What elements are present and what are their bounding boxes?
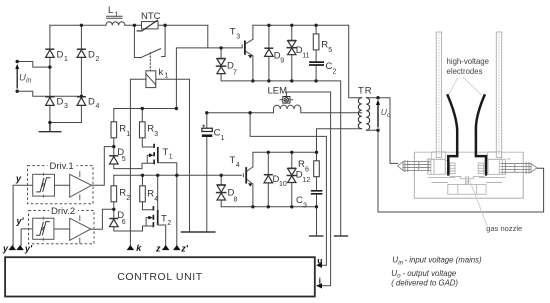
arrow i into control unit bbox=[316, 283, 322, 288]
MOSFET T2 bbox=[146, 206, 158, 227]
label Uo output bbox=[381, 107, 391, 119]
node R3 top bbox=[141, 107, 144, 110]
svg-text:1: 1 bbox=[221, 135, 225, 142]
node bridge leg A input bbox=[48, 65, 51, 68]
node D12 top bbox=[290, 151, 293, 154]
annotation Uin bbox=[392, 256, 482, 267]
wire bridge leg B bbox=[80, 25, 82, 122]
driver box Driv.1 dashed bbox=[28, 166, 94, 204]
label D7 bbox=[227, 61, 237, 77]
nozzle body bbox=[448, 185, 486, 195]
resistor R4 bbox=[140, 186, 146, 202]
diode D1 bbox=[45, 49, 54, 57]
wire primary top feed bbox=[349, 25, 362, 97]
wire driver2 internal bbox=[54, 228, 70, 230]
diode D10 bbox=[264, 175, 273, 183]
svg-text:D: D bbox=[88, 97, 95, 108]
label R3 bbox=[147, 124, 158, 139]
svg-text:2: 2 bbox=[126, 195, 130, 202]
label D10 bbox=[273, 174, 287, 188]
wire T4 collector and upper rail lower chopper bbox=[253, 152, 317, 167]
gas nozzle tip bbox=[466, 176, 468, 184]
MOSFET T1 bbox=[142, 144, 158, 165]
svg-text:in: in bbox=[26, 78, 32, 85]
svg-text:T: T bbox=[163, 147, 169, 158]
label D9 bbox=[274, 51, 285, 65]
arrow u into control unit bbox=[316, 263, 322, 268]
electrode right bbox=[476, 94, 486, 175]
wire R4 column to T2 bbox=[143, 175, 154, 210]
svg-text:R: R bbox=[298, 159, 305, 170]
node D5 top bbox=[112, 145, 115, 148]
resistor R5 bbox=[313, 34, 319, 50]
node D9 bottom bbox=[267, 79, 270, 82]
leader lines electrodes bbox=[449, 78, 482, 96]
svg-text:3: 3 bbox=[303, 203, 307, 210]
svg-text:- input voltage (mains): - input voltage (mains) bbox=[405, 256, 483, 265]
node Uin upper terminal bbox=[16, 60, 19, 63]
label D5 bbox=[117, 147, 126, 163]
svg-text:( delivered to GAD): ( delivered to GAD) bbox=[391, 279, 458, 288]
svg-text:D: D bbox=[88, 50, 95, 61]
wire driver1 output to D5 node bbox=[92, 147, 114, 186]
Uo arrow bbox=[376, 100, 380, 128]
svg-text:z: z bbox=[155, 244, 161, 254]
node bridge bottom bbox=[48, 121, 51, 124]
svg-text:D: D bbox=[57, 97, 64, 108]
svg-text:1: 1 bbox=[115, 12, 119, 19]
svg-text:Driv.1: Driv.1 bbox=[50, 161, 74, 172]
IGBT T3 bbox=[242, 39, 253, 58]
label D3 bbox=[57, 97, 69, 111]
label R1 bbox=[119, 124, 130, 139]
svg-text:4: 4 bbox=[96, 103, 100, 110]
capacitor C1 electrolytic bbox=[202, 124, 212, 137]
ground lower chopper bbox=[310, 235, 323, 237]
resistor R1 bbox=[111, 122, 117, 138]
wire T1 right lead down bbox=[159, 163, 177, 176]
wire NTC right node down to contact bbox=[162, 25, 166, 56]
resistor R2 bbox=[111, 186, 117, 202]
svg-text:LEM: LEM bbox=[268, 86, 288, 97]
svg-text:y': y' bbox=[16, 216, 25, 226]
node NTC right bbox=[163, 24, 166, 27]
svg-text:o: o bbox=[387, 112, 391, 119]
wire mid rail bbox=[114, 174, 242, 176]
wire R1 column bbox=[114, 109, 153, 169]
svg-text:electrodes: electrodes bbox=[447, 67, 483, 76]
svg-text:T: T bbox=[161, 214, 167, 225]
node C2 bottom bbox=[314, 79, 317, 82]
svg-text:T: T bbox=[230, 27, 236, 38]
wire C1 column bbox=[206, 113, 208, 232]
svg-text:1: 1 bbox=[64, 56, 68, 63]
svg-text:y: y bbox=[2, 244, 9, 254]
svg-text:1: 1 bbox=[165, 73, 169, 80]
LEM coil bbox=[274, 105, 301, 109]
label D4 bbox=[88, 97, 100, 111]
svg-text:TR: TR bbox=[358, 86, 373, 97]
svg-text:R: R bbox=[147, 189, 154, 200]
terminal k bbox=[127, 245, 135, 250]
node NTC left bbox=[133, 24, 136, 27]
label k1 bbox=[159, 67, 169, 80]
label D2 bbox=[88, 50, 100, 64]
svg-text:- output voltage: - output voltage bbox=[403, 269, 457, 278]
glass tube right bbox=[496, 32, 501, 157]
svg-text:12: 12 bbox=[302, 177, 310, 184]
wire Uin lower input bbox=[17, 91, 81, 96]
svg-text:z': z' bbox=[180, 244, 189, 254]
wire T2 right lead to z terminal bbox=[159, 225, 166, 246]
svg-text:i: i bbox=[319, 276, 321, 286]
label high-voltage electrodes bbox=[447, 57, 489, 76]
svg-text:11: 11 bbox=[302, 53, 309, 60]
wire Uin upper input bbox=[17, 62, 50, 68]
svg-text:2: 2 bbox=[96, 56, 100, 63]
svg-text:6: 6 bbox=[122, 219, 126, 226]
node R4 top bbox=[141, 174, 144, 177]
svg-text:NTC: NTC bbox=[141, 11, 161, 22]
leader line gas nozzle bbox=[469, 180, 487, 227]
ground C1 bbox=[199, 231, 215, 233]
label T2 bbox=[161, 214, 171, 228]
label D1 bbox=[57, 50, 69, 64]
wire y line bbox=[13, 185, 33, 245]
label R6 bbox=[298, 159, 309, 174]
wire T4 emitter down bbox=[252, 184, 254, 207]
svg-text:y: y bbox=[15, 174, 22, 184]
wire lower rail bbox=[221, 206, 316, 208]
diode D5 bbox=[109, 156, 118, 164]
svg-text:y': y' bbox=[24, 244, 33, 254]
svg-text:1: 1 bbox=[126, 131, 130, 138]
label T3 bbox=[230, 27, 240, 41]
right holder block bbox=[485, 152, 505, 174]
hysteresis block 2 bbox=[33, 217, 54, 241]
terminal y bbox=[9, 245, 17, 250]
wire bridge leg A bbox=[49, 25, 51, 122]
wire R6 C3 column bbox=[316, 152, 318, 236]
wire R2 column bbox=[114, 175, 154, 231]
wire T3 emitter down bbox=[252, 56, 254, 81]
amplifier triangle 1 bbox=[70, 171, 92, 200]
terminal y prime bbox=[16, 245, 24, 250]
label L1 bbox=[108, 5, 119, 19]
svg-text:gas nozzle: gas nozzle bbox=[486, 224, 522, 233]
wire R1 R3 supply line bbox=[114, 108, 177, 110]
svg-text:1: 1 bbox=[169, 154, 173, 161]
wire T3 collector to top rail bbox=[252, 25, 254, 39]
control unit box bbox=[5, 257, 315, 296]
svg-text:3: 3 bbox=[236, 34, 240, 41]
relay contact blade k1 bbox=[140, 49, 161, 58]
svg-text:8: 8 bbox=[234, 197, 238, 204]
diode D9 bbox=[264, 48, 273, 56]
node D11 top bbox=[290, 24, 293, 27]
node supply corner bbox=[175, 107, 178, 110]
wire driver2 output to D6 node bbox=[91, 209, 114, 229]
label Driv.2 bbox=[49, 206, 78, 217]
node top rail leg B bbox=[80, 24, 83, 27]
node D10 bottom bbox=[267, 205, 270, 208]
left bolt bbox=[398, 160, 431, 172]
wire LEM main line bbox=[207, 109, 362, 113]
wire k1 left lead to k terminal bbox=[130, 79, 146, 245]
wire D11 column bbox=[291, 25, 293, 81]
wire D10 column bbox=[267, 152, 269, 207]
terminal z prime bbox=[173, 245, 181, 250]
TVS diode D7 bbox=[216, 59, 227, 74]
wire z' line bbox=[176, 175, 178, 245]
ground bridge bbox=[39, 123, 60, 132]
svg-text:U: U bbox=[19, 73, 26, 84]
svg-text:R: R bbox=[119, 124, 126, 135]
node T1 source mid rail bbox=[175, 174, 178, 177]
svg-text:high-voltage: high-voltage bbox=[447, 57, 489, 66]
svg-text:2: 2 bbox=[167, 220, 171, 227]
apparatus top plate edges bbox=[414, 152, 523, 159]
node secondary top bbox=[376, 96, 379, 99]
svg-text:R: R bbox=[147, 124, 154, 135]
wire R5 C2 column bbox=[315, 25, 317, 81]
svg-text:4: 4 bbox=[236, 162, 240, 169]
node T3 emitter rail bbox=[251, 79, 254, 82]
right clamp hatch bbox=[478, 163, 483, 174]
svg-text:5: 5 bbox=[328, 47, 332, 54]
capacitor C3 bbox=[311, 191, 323, 194]
svg-text:5: 5 bbox=[122, 156, 126, 163]
svg-text:R: R bbox=[119, 188, 126, 199]
svg-text:k: k bbox=[159, 67, 164, 78]
svg-text:C: C bbox=[214, 128, 221, 139]
wire bridge bottom rail bbox=[50, 122, 82, 124]
svg-text:C: C bbox=[326, 61, 333, 72]
node D9 top bbox=[267, 24, 270, 27]
IGBT T4 bbox=[243, 167, 253, 187]
electrode left bbox=[447, 94, 457, 175]
label Driv.1 bbox=[48, 161, 77, 172]
capacitor C2 bbox=[309, 62, 324, 65]
hysteresis block 1 bbox=[33, 173, 55, 198]
relay coil link dashed bbox=[149, 53, 151, 71]
node dots bbox=[16, 24, 380, 211]
svg-text:D: D bbox=[57, 50, 64, 61]
label C2 bbox=[326, 61, 337, 76]
right bolt bbox=[501, 162, 537, 174]
diode D2 bbox=[77, 49, 86, 57]
node R6 top bbox=[315, 151, 318, 154]
LEM sensor bbox=[280, 97, 294, 104]
label C1 bbox=[214, 128, 225, 143]
svg-text:2: 2 bbox=[333, 69, 337, 76]
Uin arrow bbox=[15, 64, 19, 89]
node D8 top bbox=[220, 174, 223, 177]
svg-text:L: L bbox=[108, 5, 113, 16]
resistor R6 bbox=[314, 161, 320, 177]
wire top rail left section bbox=[50, 24, 208, 26]
ground top chopper bbox=[335, 235, 348, 237]
amplifier triangle 2 bbox=[70, 215, 91, 243]
svg-text:3: 3 bbox=[64, 103, 68, 110]
diode D3 bbox=[45, 97, 54, 106]
svg-text:Driv.2: Driv.2 bbox=[51, 206, 75, 217]
diode D4 bbox=[77, 97, 86, 106]
apparatus outer box bbox=[414, 152, 523, 198]
glass tube left bbox=[436, 32, 441, 157]
node D7 top bbox=[219, 46, 222, 49]
wire i sense line bbox=[286, 92, 330, 286]
nozzle shoulders bbox=[450, 176, 485, 178]
node Uin lower terminal bbox=[16, 90, 19, 93]
node secondary bottom bbox=[376, 129, 379, 132]
label D11 bbox=[296, 45, 310, 60]
svg-text:C: C bbox=[296, 195, 303, 206]
diode D6 bbox=[109, 219, 118, 227]
wire secondary bottom under-wire to right electrode bbox=[366, 130, 543, 212]
wire supply step from top rail bbox=[207, 25, 209, 48]
node T4 emitter rail bbox=[251, 205, 254, 208]
svg-text:u: u bbox=[317, 256, 322, 266]
TVS diode D11 bbox=[287, 41, 298, 55]
node R5 top bbox=[314, 24, 317, 27]
label R2 bbox=[119, 188, 130, 203]
svg-text:R: R bbox=[321, 40, 328, 51]
wire supply down to R1 R3 line bbox=[175, 48, 177, 109]
node D11 bottom bbox=[290, 79, 293, 82]
wire secondary top to electrode bbox=[366, 98, 397, 164]
relay coil k1 bbox=[146, 71, 156, 88]
node bridge leg B input bbox=[80, 95, 83, 98]
svg-text:3: 3 bbox=[154, 131, 158, 138]
wire T3 base line bbox=[176, 47, 242, 49]
node C1 top bbox=[205, 111, 208, 114]
TVS diode D12 bbox=[287, 168, 298, 182]
wire emitter rail top chopper bbox=[253, 81, 341, 236]
ground relay bbox=[182, 231, 198, 233]
nozzle inner steps bbox=[458, 185, 477, 195]
wire D7 column bbox=[221, 48, 253, 81]
svg-text:4: 4 bbox=[154, 196, 158, 203]
svg-text:T: T bbox=[230, 155, 236, 166]
wire T2 bar top feed bbox=[157, 175, 159, 210]
svg-text:CONTROL UNIT: CONTROL UNIT bbox=[117, 271, 203, 283]
wire D12 column bbox=[291, 152, 293, 207]
left holder block bbox=[428, 152, 448, 174]
node D10 top bbox=[267, 151, 270, 154]
label T1 bbox=[163, 147, 173, 161]
wire primary bottom to lower chopper bbox=[317, 129, 362, 153]
inductor L1 bbox=[106, 16, 125, 25]
left clamp hatch bbox=[450, 163, 455, 174]
svg-text:10: 10 bbox=[279, 181, 287, 188]
svg-text:in: in bbox=[398, 260, 403, 266]
label R5 bbox=[321, 40, 332, 55]
transformer TR windings bbox=[358, 98, 369, 131]
label C3 bbox=[296, 195, 307, 210]
wire driver1 internal bbox=[55, 184, 70, 186]
svg-text:6: 6 bbox=[305, 167, 309, 174]
resistor R3 bbox=[140, 122, 146, 138]
wire y prime line bbox=[21, 229, 33, 246]
label R4 bbox=[147, 189, 158, 204]
terminal z bbox=[162, 245, 170, 250]
node D12 bottom bbox=[290, 205, 293, 208]
node D6 top bbox=[112, 208, 115, 211]
label D12 bbox=[296, 170, 310, 185]
node C3 bottom bbox=[315, 205, 318, 208]
driver box Driv.2 dashed bbox=[29, 211, 95, 244]
svg-text:9: 9 bbox=[280, 58, 284, 65]
node T2 drain bbox=[156, 174, 159, 177]
wire u sense line bbox=[250, 113, 326, 265]
wire D9 column bbox=[268, 25, 270, 81]
NTC thermistor bbox=[142, 22, 159, 29]
svg-text:7: 7 bbox=[233, 70, 237, 77]
label D6 bbox=[117, 210, 126, 226]
wire D8 column bbox=[220, 175, 222, 207]
TVS diode D8 bbox=[216, 185, 227, 200]
label T4 bbox=[230, 155, 240, 169]
wire R3 column to T1 bbox=[142, 109, 153, 148]
node u sense tap bbox=[248, 111, 251, 114]
wire k1 right lead to ground bbox=[156, 79, 190, 232]
wire top rail right section bbox=[253, 24, 349, 26]
label Uin input bbox=[19, 73, 32, 85]
label D8 bbox=[228, 188, 238, 204]
wire NTC left node down to relay contact bbox=[134, 25, 140, 57]
annotation Uo line1 bbox=[391, 269, 457, 280]
holder base steps bbox=[428, 178, 506, 183]
